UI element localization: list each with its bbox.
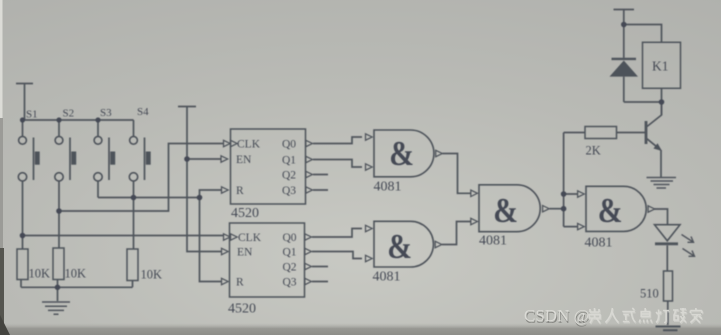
svg-text:10K: 10K: [29, 267, 51, 281]
svg-text:Q1: Q1: [282, 154, 296, 166]
svg-text:4081: 4081: [374, 180, 402, 195]
svg-text:R: R: [236, 277, 244, 289]
svg-text:4081: 4081: [373, 270, 401, 285]
svg-text:S3: S3: [100, 107, 112, 119]
svg-text:EN: EN: [237, 247, 253, 259]
svg-text:S1: S1: [26, 109, 38, 121]
svg-text:K1: K1: [652, 59, 669, 74]
svg-text:Q2: Q2: [282, 169, 296, 181]
svg-text:4520: 4520: [228, 302, 256, 317]
svg-text:EN: EN: [236, 154, 252, 166]
svg-text:Q3: Q3: [282, 185, 296, 197]
svg-text:Q3: Q3: [283, 277, 297, 289]
svg-text:4081: 4081: [585, 236, 613, 251]
svg-text:&: &: [493, 192, 518, 231]
svg-text:Q0: Q0: [283, 232, 297, 244]
svg-text:510: 510: [640, 287, 659, 301]
svg-text:&: &: [389, 135, 414, 174]
svg-text:10K: 10K: [65, 267, 87, 281]
svg-text:&: &: [598, 192, 623, 231]
svg-text:S4: S4: [137, 106, 149, 118]
svg-text:2K: 2K: [586, 144, 601, 158]
svg-text:CSDN @: CSDN @: [524, 306, 589, 325]
svg-text:R: R: [236, 185, 244, 197]
svg-text:&: &: [387, 228, 412, 267]
svg-text:4081: 4081: [479, 234, 507, 249]
svg-text:CLK: CLK: [238, 232, 262, 244]
svg-text:Q1: Q1: [283, 247, 297, 259]
svg-text:S2: S2: [63, 108, 75, 120]
svg-text:10K: 10K: [141, 268, 163, 282]
svg-text:Q2: Q2: [283, 262, 297, 274]
svg-text:Q0: Q0: [282, 139, 296, 151]
svg-text:CLK: CLK: [237, 139, 261, 151]
svg-text:4520: 4520: [231, 206, 259, 221]
